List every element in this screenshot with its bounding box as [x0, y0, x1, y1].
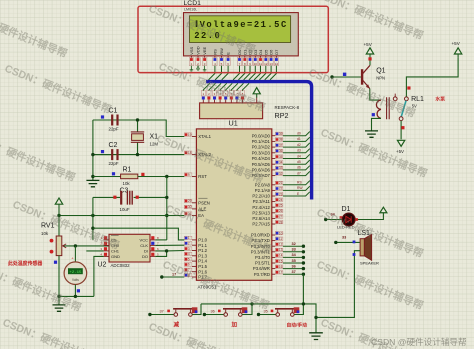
svg-text:+5V: +5V: [452, 41, 461, 46]
wire U2 VCC up to +5V line: [155, 239, 166, 241]
wire LED D1 to +5V arrow: [355, 216, 383, 220]
svg-text:38: 38: [279, 138, 283, 142]
wire RV1 wiper to U2 CH0 and voltmeter: [64, 245, 109, 247]
wire U2 GND down to ground rail: [94, 256, 104, 296]
svg-text:25: 25: [279, 204, 283, 208]
svg-text:RP2: RP2: [275, 111, 289, 120]
wire U2 CS to U1 P1.0: [93, 228, 184, 240]
svg-text:d4: d4: [297, 154, 301, 158]
svg-text:+5V: +5V: [364, 42, 373, 47]
wires from bus to RP2 pins: [203, 83, 249, 91]
ADC U2 body: [109, 234, 150, 262]
capacitor C2 22pF: [93, 142, 119, 166]
svg-text:XTAL1: XTAL1: [198, 134, 211, 139]
RP2 common pin 9 with +5V power arrow: [256, 98, 258, 103]
svg-text:32: 32: [279, 172, 283, 176]
svg-text:VSS: VSS: [189, 46, 194, 54]
U1 left pin names, stubs, numbers, markers: [184, 133, 211, 280]
svg-text:P0.1/AD1: P0.1/AD1: [252, 139, 271, 144]
svg-text:P2.2/A10: P2.2/A10: [252, 194, 270, 199]
svg-text:GND: GND: [111, 254, 120, 259]
U2 pin names and numbers: [100, 236, 159, 259]
svg-text:SPEAKER: SPEAKER: [360, 261, 379, 266]
svg-text:30: 30: [188, 205, 192, 209]
svg-text:加: 加: [231, 320, 238, 328]
relay RL1 coil: [376, 97, 389, 119]
svg-text:22pF: 22pF: [109, 161, 119, 166]
svg-text:CLK: CLK: [140, 243, 148, 248]
wire to speaker with net label 33: [336, 241, 360, 243]
svg-text:Volts: Volts: [72, 278, 79, 282]
svg-text:P0.0/AD0: P0.0/AD0: [252, 133, 271, 138]
svg-text:22pF: 22pF: [109, 127, 119, 132]
svg-text:10k: 10k: [123, 181, 131, 186]
svg-text:14: 14: [275, 62, 279, 66]
wire to LED D1 with net label 34: [326, 219, 343, 221]
svg-text:E: E: [226, 52, 231, 55]
svg-text:P2.6/A14: P2.6/A14: [252, 216, 270, 221]
LCD VDD +5V stub: [197, 66, 199, 71]
svg-text:+5V: +5V: [396, 149, 404, 154]
svg-text:32: 32: [292, 242, 296, 246]
wire stub net 36 to button 2: [204, 314, 224, 316]
svg-text:34: 34: [279, 161, 283, 165]
wire from P3.7 node down to key common rail: [302, 274, 304, 304]
wire U2 DI/DO joined to U1 P1.2: [155, 251, 166, 257]
svg-text:35: 35: [292, 259, 296, 263]
push button K1 (decrease): [173, 307, 197, 316]
LCD green screen: [190, 16, 291, 43]
svg-text:27: 27: [279, 215, 283, 219]
svg-text:P1.5: P1.5: [198, 264, 207, 269]
svg-text:LM016L: LM016L: [184, 8, 197, 12]
svg-text:12: 12: [264, 62, 268, 66]
svg-text:36: 36: [292, 264, 296, 268]
svg-text:P3.7/RD: P3.7/RD: [254, 272, 270, 277]
svg-text:2: 2: [188, 242, 190, 246]
wire C3 left / CS column: [92, 197, 94, 240]
svg-text:5: 5: [188, 257, 190, 261]
key common rail to ground: [201, 304, 316, 333]
svg-text:RS: RS: [297, 181, 302, 185]
svg-text:10k: 10k: [41, 231, 49, 236]
wire to Q1 base with marker: [332, 76, 361, 78]
wire button3 to common rail: [294, 304, 303, 315]
svg-text:10: 10: [254, 62, 258, 66]
svg-text:RS: RS: [212, 49, 217, 55]
svg-text:33: 33: [342, 236, 346, 240]
svg-text:37: 37: [292, 270, 296, 274]
svg-text:15: 15: [279, 259, 283, 263]
svg-text:U2: U2: [98, 261, 107, 268]
svg-text:36: 36: [279, 149, 283, 153]
svg-text:d1: d1: [297, 137, 301, 141]
svg-text:d5: d5: [297, 160, 301, 164]
wire U2 CH1 stub: [86, 250, 103, 252]
svg-text:P2.1/A9: P2.1/A9: [255, 188, 271, 193]
LCD pin stubs, number boxes and logic-state markers (pins 1-14): [189, 56, 278, 66]
svg-text:C2: C2: [109, 142, 118, 149]
svg-text:D6: D6: [269, 49, 274, 55]
svg-text:17: 17: [279, 271, 283, 275]
svg-text:10: 10: [279, 231, 283, 235]
svg-text:33: 33: [279, 166, 283, 170]
svg-text:D5: D5: [263, 49, 268, 55]
relay RL1 contact: [393, 94, 408, 121]
speaker LS1: [360, 234, 372, 260]
svg-text:12: 12: [279, 243, 283, 247]
svg-text:P0.2/AD2: P0.2/AD2: [252, 145, 271, 150]
wires U1 P0.0-P0.7 to bus with net labels d0-d7: [283, 132, 310, 176]
wire button2 to common rail: [242, 304, 252, 315]
voltmeter (temperature reading): [64, 246, 87, 285]
svg-text:P0.5/AD5: P0.5/AD5: [252, 162, 271, 167]
U2 pin markers: [104, 236, 107, 239]
wire XTAL2 net (C2 / X1 bottom to U1 XTAL2): [93, 154, 184, 156]
svg-text:13: 13: [279, 248, 283, 252]
svg-text:11: 11: [279, 237, 283, 241]
ground symbol bottom-left: [53, 305, 66, 311]
wire stub net 37 to button 1: [150, 314, 174, 316]
LCD VSS ground stub: [190, 66, 194, 71]
svg-text:VEE: VEE: [202, 46, 207, 54]
wire relay contact to +5V top-right: [406, 58, 458, 97]
svg-text:P3.5/T1: P3.5/T1: [255, 261, 271, 266]
wire +5V to Q1 collector: [369, 58, 371, 66]
LCD module LCD1 body: [184, 13, 299, 56]
+5V down power arrow: [397, 140, 404, 146]
wires U1 P3.2-P3.7 with net labels 32-37: [283, 242, 305, 276]
capacitor C3 10uF (electrolytic): [93, 187, 167, 211]
svg-text:26: 26: [279, 209, 283, 213]
svg-text:P2.4/A12: P2.4/A12: [252, 205, 270, 210]
svg-text:33: 33: [292, 248, 296, 252]
svg-text:NPN: NPN: [376, 75, 385, 80]
svg-text:P0.4/AD4: P0.4/AD4: [252, 156, 271, 161]
capacitor C1 22pF: [93, 108, 138, 132]
push button K2 (increase): [223, 307, 247, 316]
svg-text:16: 16: [279, 265, 283, 269]
wire button1 to common rail: [192, 304, 201, 315]
wire voltmeter to ground rail: [74, 285, 76, 297]
RP2 pin number boxes and markers: [201, 91, 244, 103]
push button K3 (auto/manual): [275, 307, 299, 316]
svg-text:37: 37: [279, 143, 283, 147]
svg-text:CSDN @硬件设计辅导帮: CSDN @硬件设计辅导帮: [371, 336, 467, 347]
svg-text:R1: R1: [123, 166, 132, 173]
red annotation box around LCD: [138, 6, 328, 72]
svg-text:U1: U1: [229, 118, 238, 127]
ground for C1/C2/R1 rail: [92, 177, 94, 181]
svg-text:RST: RST: [198, 174, 207, 179]
resistor pack RP2 body: [200, 103, 263, 119]
U1 right pin names, stubs, numbers, markers (P0, P2, P3): [251, 132, 283, 277]
transistor Q1 NPN: [362, 65, 386, 88]
svg-text:24: 24: [279, 198, 283, 202]
bottom-left ground net: [58, 256, 60, 297]
+5V power arrow above RV1: [55, 198, 62, 204]
svg-text:d7: d7: [297, 171, 301, 175]
ground symbol for keys: [309, 333, 323, 340]
svg-text:+2.15: +2.15: [69, 271, 82, 275]
svg-text:自动/手动: 自动/手动: [287, 322, 308, 329]
svg-text:37: 37: [160, 310, 164, 314]
svg-text:Q1: Q1: [376, 67, 385, 74]
svg-text:ADC0832: ADC0832: [111, 263, 131, 268]
svg-text:19: 19: [188, 133, 192, 137]
svg-text:P1.1: P1.1: [198, 243, 207, 248]
svg-text:DO: DO: [142, 254, 148, 259]
resistor R1 10k: [93, 166, 184, 186]
svg-text:VCC: VCC: [140, 238, 149, 243]
svg-text:1: 1: [188, 236, 190, 240]
svg-text:D1: D1: [342, 206, 351, 213]
wire net 17 to U1 P1.7: [162, 276, 185, 278]
svg-text:此处温度传感器: 此处温度传感器: [8, 260, 42, 267]
svg-text:6: 6: [188, 263, 190, 267]
svg-text:P2.3/A11: P2.3/A11: [253, 199, 271, 204]
potentiometer RV1 10k: [41, 222, 67, 263]
LCD pin name labels (VSS VDD VEE RS RW E D0-D7): [189, 46, 279, 55]
svg-text:d0: d0: [297, 132, 301, 136]
svg-text:22: 22: [279, 187, 283, 191]
+5V power arrow for LED: [380, 207, 387, 213]
svg-text:39: 39: [279, 132, 283, 136]
svg-text:RL1: RL1: [411, 96, 424, 103]
svg-text:VDD: VDD: [196, 46, 201, 55]
svg-text:d2: d2: [297, 143, 301, 147]
svg-text:RW: RW: [297, 186, 303, 190]
svg-text:9: 9: [188, 173, 190, 177]
svg-text:PSEN: PSEN: [198, 200, 210, 205]
wires from LCD RS RW E D0-D7 into bus: [209, 66, 277, 80]
svg-text:21: 21: [279, 181, 283, 185]
wire XTAL1 net (C1 / X1 top to U1 XTAL1): [93, 120, 184, 137]
crystal X1 12M: [131, 120, 159, 155]
LCD VEE ground stub: [203, 66, 207, 71]
ground under relay coil: [365, 131, 378, 137]
junction dot RST node: [165, 175, 168, 178]
svg-text:35: 35: [279, 155, 283, 159]
svg-text:P1.2: P1.2: [198, 248, 207, 253]
svg-text:11: 11: [259, 62, 262, 66]
svg-text:36: 36: [211, 310, 215, 314]
svg-text:d3: d3: [297, 149, 301, 153]
svg-text:P2.7/A15: P2.7/A15: [252, 222, 270, 227]
svg-text:P3.6/WR: P3.6/WR: [253, 266, 270, 271]
svg-text:水泵: 水泵: [434, 96, 445, 103]
svg-text:4: 4: [188, 252, 190, 256]
svg-text:d6: d6: [297, 166, 301, 170]
svg-text:D7: D7: [274, 49, 279, 55]
junction dots crystal nets: [136, 118, 139, 121]
vertical wire RST/C3/+5V column: [166, 177, 168, 240]
+5V distribution wire (to EA / U2 VCC / RV1): [59, 215, 184, 217]
svg-text:14: 14: [279, 254, 283, 258]
wire relay common to +5V down arrow: [400, 121, 402, 140]
wire Q1 emitter to relay coil: [370, 89, 381, 101]
wire speaker bottom to ground rail: [316, 251, 360, 318]
svg-text:减: 减: [174, 320, 180, 328]
svg-text:DI: DI: [144, 249, 148, 254]
wire stub net 35 to button 3: [259, 314, 277, 316]
svg-text:RW: RW: [219, 48, 224, 55]
LED D1 (red): [342, 213, 355, 226]
svg-text:P0.3/AD3: P0.3/AD3: [252, 150, 271, 155]
wire +5V to RV1: [58, 208, 60, 236]
left rail joining C1 C2 R1 to ground: [92, 120, 94, 177]
svg-text:29: 29: [188, 199, 192, 203]
wire U2 CLK to U1 P1.1: [155, 244, 184, 246]
wires U1 P2.0-P2.2 to bus with net labels RS RW E: [283, 181, 310, 196]
svg-text:13: 13: [269, 62, 273, 66]
svg-text:28: 28: [279, 220, 283, 224]
svg-text:P1.4: P1.4: [198, 259, 207, 264]
svg-text:3: 3: [188, 247, 190, 251]
svg-text:23: 23: [279, 192, 283, 196]
svg-text:10uF: 10uF: [120, 207, 130, 212]
microcontroller U1 body: [196, 129, 271, 280]
wire relay coil to ground: [372, 118, 382, 130]
svg-text:P1.3: P1.3: [198, 253, 207, 258]
svg-text:P1.0: P1.0: [198, 238, 207, 243]
svg-text:RESPACK-8: RESPACK-8: [275, 105, 300, 110]
data/control bus (blue): [206, 82, 312, 200]
svg-text:D4: D4: [258, 49, 263, 55]
svg-text:P2.5/A13: P2.5/A13: [252, 210, 270, 215]
